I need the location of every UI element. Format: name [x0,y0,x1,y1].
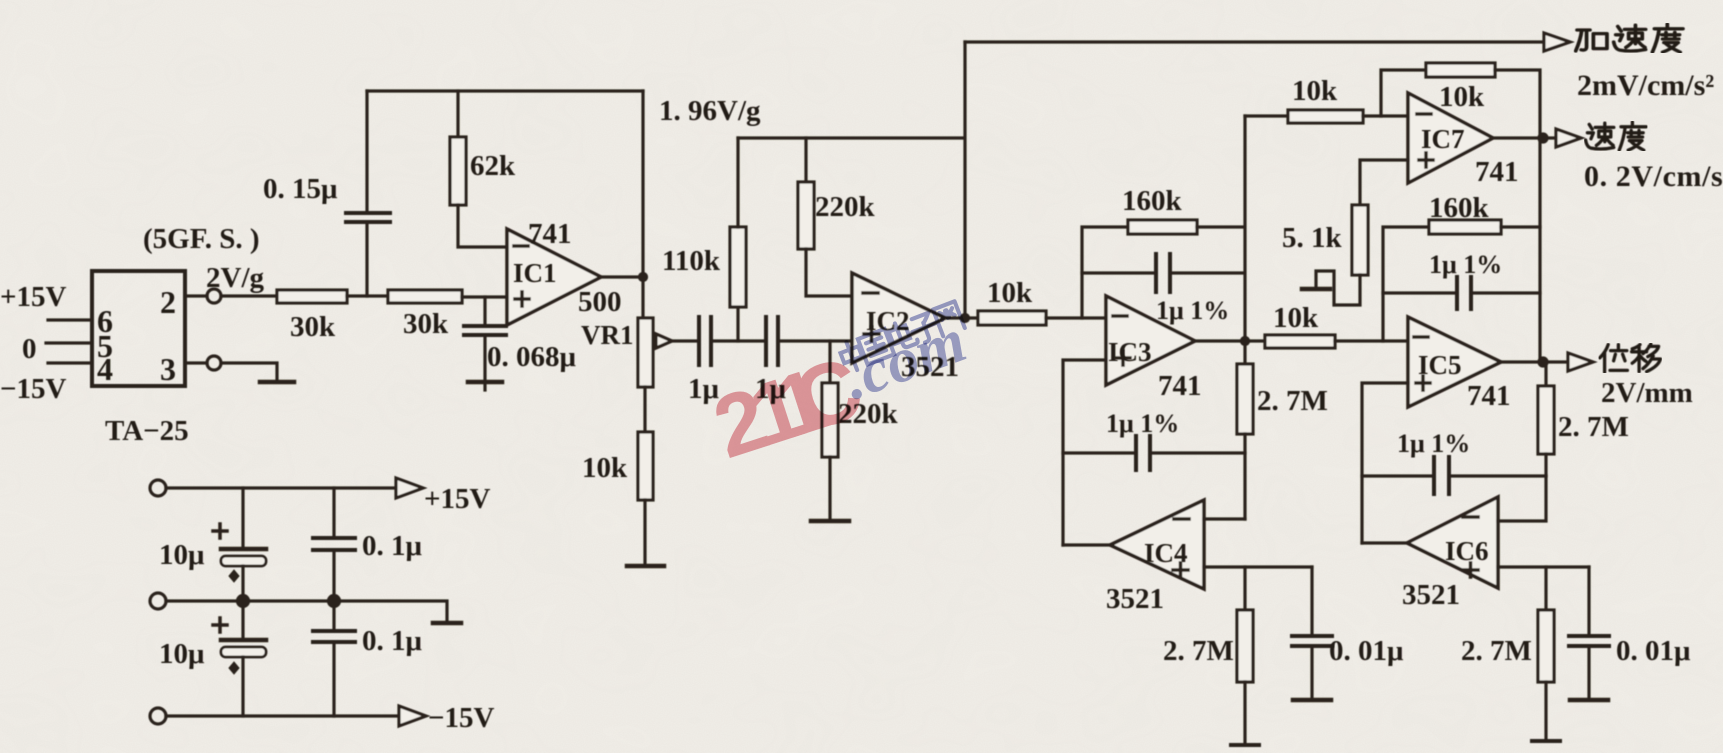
end bar (2.7M IC4) [1231,743,1259,747]
0V rail [166,601,447,622]
op-amp IC5 [1408,317,1501,407]
svg-text:5. 1k: 5. 1k [1282,222,1343,254]
watermark blue 中国电子网 [838,301,965,374]
svg-text:0. 1μ: 0. 1μ [362,530,423,562]
capacitor 0.15u [346,91,390,296]
svg-text:2V/g: 2V/g [206,262,265,294]
end bar (2.7M IC6) [1532,739,1560,743]
svg-text:741: 741 [528,218,572,250]
watermark blue .com [834,305,975,413]
power terminal circle (+) [150,480,166,496]
svg-text:2. 7M: 2. 7M [1558,411,1629,443]
svg-text:(5GF. S. ): (5GF. S. ) [143,223,260,255]
svg-text:10k: 10k [1273,302,1319,334]
watermark red 21IC [702,337,873,477]
resistor 10k (IC7 feedback) [1381,63,1540,140]
plus mark (10u lower) [213,618,227,632]
IC3 + input wire [1063,360,1106,545]
output arrow (acceleration) [1544,33,1570,51]
IC2 output wire [945,315,978,322]
capacitor 0.068u [464,297,506,381]
svg-text:160k: 160k [1429,192,1490,224]
ground (0.01u IC4) [1293,698,1331,703]
ground (pin 3) [260,380,294,385]
wire 30k2 to IC1 + input [462,295,507,298]
IC6 + input wire [1498,565,1589,568]
svg-text:2. 7M: 2. 7M [1163,635,1234,667]
pin 3 wire to ground [185,356,277,381]
output arrow (velocity) [1556,129,1581,147]
IC7 output wire [1493,134,1556,142]
top rail to acceleration output [965,40,1544,43]
svg-text:0. 15μ: 0. 15μ [263,173,338,205]
svg-text:IC6: IC6 [1445,536,1489,566]
IC4 + input wire [1204,565,1312,568]
IC6 - input wire [1498,476,1546,521]
svg-text:IC3: IC3 [1108,337,1152,367]
svg-text:2: 2 [160,284,176,320]
svg-text:−15V: −15V [0,373,67,405]
op-amp IC1 [507,229,601,325]
arrow +15V [396,478,423,498]
svg-text:3: 3 [160,351,176,387]
svg-text:2V/mm: 2V/mm [1601,377,1693,409]
svg-text:IC5: IC5 [1418,350,1462,380]
capacitor 10u (lower electrolytic) [221,601,266,716]
resistor 2.7M (IC5 output) [1538,362,1554,476]
svg-text:IC1: IC1 [513,258,557,288]
svg-text:10k: 10k [582,452,628,484]
IC4 - input wire [1204,517,1245,520]
capacitor 1u 1% (IC5 feedback) [1383,277,1540,309]
capacitor 0.1u (upper) [313,488,355,601]
resistor 220k (lower, to ground) [822,341,838,520]
svg-text:TA−25: TA−25 [105,415,189,447]
svg-text:741: 741 [1467,380,1511,412]
ground (220k lower) [811,519,849,524]
resistor 10k (IC2 output) [978,311,1106,325]
IC6 output wire to IC5 + input [1362,541,1407,544]
svg-text:62k: 62k [470,150,516,182]
resistor 2.7M (IC3 output) [1237,341,1253,519]
node between caps [736,307,739,341]
svg-text:741: 741 [1158,370,1202,402]
svg-text:10μ: 10μ [159,638,205,670]
op-amp IC2 [852,273,945,363]
resistor 10k (into IC7) [1245,110,1408,123]
capacitor 10u (upper electrolytic) [221,488,266,601]
svg-text:+15V: +15V [0,281,67,313]
svg-text:1μ 1%: 1μ 1% [1156,296,1229,325]
IC5 + input wire [1362,383,1408,543]
svg-text:1μ 1%: 1μ 1% [1397,429,1470,458]
vertical IC3 output to IC7 input [1243,116,1246,341]
svg-text:0. 2V/cm/s: 0. 2V/cm/s [1584,160,1723,193]
IC4 output wire to IC3 + input [1063,543,1110,546]
op-amp IC3 [1106,296,1195,385]
wire VR1 wiper to coupling caps [672,339,699,342]
svg-text:2. 7M: 2. 7M [1257,385,1328,417]
capacitor 0.01u (IC6) [1569,567,1609,699]
resistor 220k (upper, feedback) [798,138,852,296]
pin 2 output wire [185,289,277,303]
resistor 30k (second) [388,290,462,303]
op-amp IC4 (points left) [1110,500,1204,589]
resistor 10k (below VR1) [638,387,653,565]
pin 6 stub wire [48,318,92,321]
resistor 110k [730,138,746,307]
svg-text:30k: 30k [403,308,449,340]
capacitor 1u (first coupling) [699,317,766,365]
svg-text:−15V: −15V [428,702,495,734]
capacitor 1u 1% (IC5/IC6 loop) [1362,457,1546,494]
svg-text:+15V: +15V [424,483,491,515]
capacitor 0.01u (IC4) [1292,567,1332,699]
capacitor 1u (second coupling) [766,317,852,365]
svg-text:2. 7M: 2. 7M [1461,635,1532,667]
svg-text:IC4: IC4 [1144,538,1188,568]
resistor 5.1k [1316,205,1368,305]
+15V rail [166,486,396,489]
svg-text:110k: 110k [662,245,721,277]
resistor 30k (first) [277,290,347,303]
svg-text:IC7: IC7 [1421,124,1465,154]
svg-text:160k: 160k [1122,185,1183,217]
ground (0.01u IC6) [1570,698,1608,703]
power terminal circle (0) [150,593,166,609]
resistor 10k (IC3 to IC5) [1265,335,1408,348]
op-amp IC7 [1408,93,1493,183]
svg-text:0. 01μ: 0. 01μ [1616,635,1691,667]
resistor 2.7M (IC6 lower) [1538,567,1554,740]
capacitor 1u 1% (IC3 feedback) [1082,254,1243,292]
Chinese output label: 速度 (velocity) [1586,122,1647,150]
svg-text:10k: 10k [987,277,1033,309]
ground (10k below VR1) [627,564,664,569]
svg-text:VR1: VR1 [581,320,634,350]
node IC1 output / feedback [640,91,647,281]
power terminal circle (-) [150,708,166,724]
svg-text:10μ: 10μ [159,539,205,571]
plus mark (10u upper) [213,524,227,538]
IC1 top feedback wire [367,89,643,92]
IC7 + input wire [1360,160,1408,205]
output arrow (displacement) [1568,353,1593,371]
wire IC2 output up to acceleration rail [963,42,966,318]
svg-text:2mV/cm/s²: 2mV/cm/s² [1577,69,1714,102]
ground (5.1k) [1302,287,1330,292]
potentiometer VR1 [638,277,672,387]
-15V rail [166,714,399,717]
svg-text:500: 500 [578,286,622,318]
svg-text:3521: 3521 [1402,579,1460,611]
IC2 feedback top rail [738,136,963,139]
ground (0.068u) [468,382,502,390]
resistor 160k (IC5 feedback) [1383,220,1540,341]
arrow -15V [399,706,426,726]
capacitor 1u 1% (IC3/IC4 loop) [1063,436,1245,470]
labels part 1 [0,95,1033,484]
svg-text:220k: 220k [815,191,876,223]
IC5 output wire [1501,358,1568,366]
svg-text:1μ 1%: 1μ 1% [1429,250,1502,279]
svg-text:741: 741 [1475,156,1519,188]
resistor 2.7M (IC4 lower) [1237,567,1253,744]
svg-text:0. 01μ: 0. 01μ [1329,635,1404,667]
svg-text:1. 96V/g: 1. 96V/g [659,95,761,127]
pin 5 stub wire [46,341,92,344]
resistor 160k (IC3 feedback) [1082,220,1243,318]
capacitor 0.1u (lower) [313,601,355,716]
Chinese output label: 加速度 (acceleration) [1576,24,1683,52]
svg-text:0. 068μ: 0. 068μ [487,341,577,373]
pin 4 stub wire [48,361,92,364]
svg-text:10k: 10k [1439,81,1485,113]
IC1 output wire [601,275,643,278]
op-amp IC6 (points left) [1407,497,1498,588]
vertical IC7 output down to IC5 output [1538,140,1541,363]
wire 30k1 to node [347,294,388,297]
svg-text:0: 0 [22,333,37,365]
svg-text:30k: 30k [290,311,336,343]
TA-25 sensor block [92,271,185,386]
svg-text:3521: 3521 [1106,583,1164,615]
svg-text:1μ 1%: 1μ 1% [1106,409,1179,438]
svg-text:10k: 10k [1292,75,1338,107]
ground (0V rail) [433,621,461,626]
svg-text:0. 1μ: 0. 1μ [362,625,423,657]
IC3 output wire [1195,338,1265,345]
junction dots 0V rail [238,596,340,607]
resistor 62k [450,91,507,247]
svg-text:4: 4 [97,351,113,387]
Chinese output label: 位移 (displacement) [1600,344,1661,372]
